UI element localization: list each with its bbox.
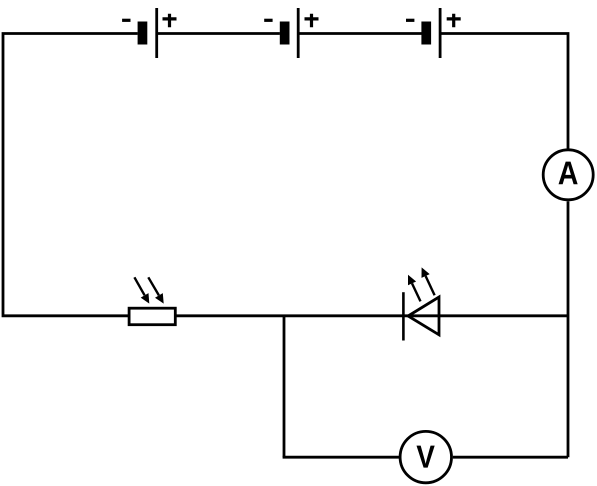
ammeter A1 [543, 150, 593, 200]
cell 2 positive plate [297, 8, 300, 58]
voltmeter label V [417, 446, 435, 468]
wire: left loop (top-left corner and bottom-left corner) [3, 34, 138, 316]
ammeter label A [559, 162, 578, 185]
LED light arrow 1 [412, 283, 421, 301]
wire: bottom main wire from LDR to right wire [175, 314, 568, 317]
cell 3 minus label [406, 19, 414, 22]
cell 3 positive plate [439, 8, 442, 58]
cell 1 positive plate [155, 8, 158, 58]
wire: voltmeter branch vertical drop [283, 316, 286, 457]
LED cathode bar [402, 292, 405, 340]
cell 2 negative plate [280, 22, 290, 45]
photoresistor LDR R1 [129, 277, 175, 324]
wire: voltmeter branch left horizontal [283, 456, 400, 459]
cell 2 minus label [264, 19, 272, 22]
wire: voltmeter branch right horizontal [453, 456, 568, 459]
battery cell 1 [122, 8, 176, 58]
cell 2 plus label [305, 14, 319, 27]
battery cell 2 [264, 8, 318, 58]
cell 3 plus label [447, 14, 461, 27]
battery cell 3 [406, 8, 461, 58]
LDR light arrow 1 [134, 277, 144, 295]
voltmeter V1 [400, 431, 451, 482]
cell 1 negative plate [138, 22, 148, 45]
wire: top segment between cell 1 and cell 2 [158, 32, 280, 35]
wire: top segment between cell 2 and cell 3 [299, 32, 421, 35]
LED light arrow 2 [426, 276, 435, 295]
LDR light arrow 2 [148, 277, 159, 295]
cell 1 plus label [163, 14, 177, 27]
ammeter A1 body [543, 150, 593, 200]
cell 1 minus label [122, 19, 130, 22]
voltmeter V1 body [400, 431, 451, 482]
wire: top-right corner down to ammeter [440, 34, 568, 149]
wire: ammeter to bottom-right, down to voltmeter corner [567, 201, 570, 457]
LED triangle [408, 297, 439, 335]
LED D1 [403, 267, 439, 340]
cell 3 negative plate [421, 22, 431, 45]
